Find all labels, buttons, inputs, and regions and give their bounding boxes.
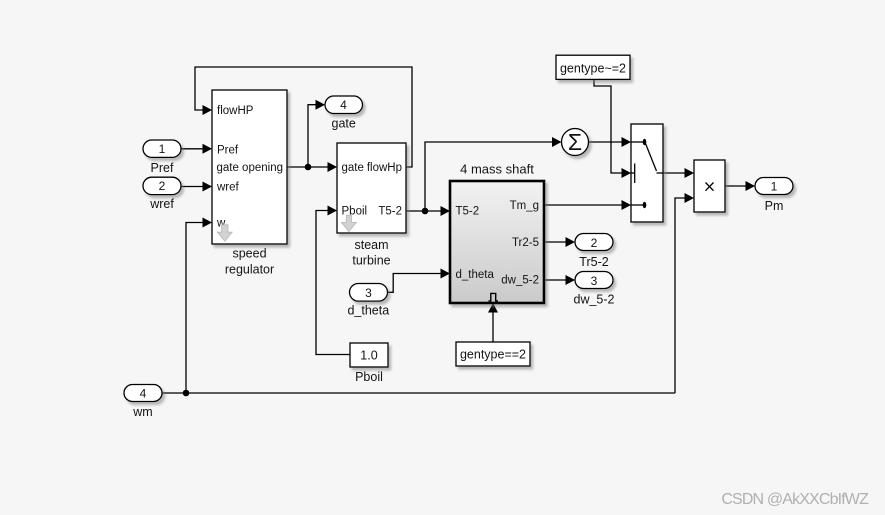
svg-text:d_theta: d_theta xyxy=(347,303,389,317)
svg-text:Pm: Pm xyxy=(765,199,784,213)
subsystem speed regulator xyxy=(212,90,287,244)
svg-text:2: 2 xyxy=(591,236,598,250)
svg-text:wref: wref xyxy=(216,182,240,194)
outport 4 gate xyxy=(325,96,363,130)
svg-text:turbine: turbine xyxy=(352,254,390,268)
svg-text:2: 2 xyxy=(159,179,166,193)
subsystem 4 mass shaft xyxy=(450,162,544,304)
wire Pboil constant to steam turbine Pboil xyxy=(316,206,350,355)
svg-text:1.0: 1.0 xyxy=(360,349,377,363)
wire branch T5-2 up to sum xyxy=(425,137,562,211)
svg-text:steam: steam xyxy=(354,238,388,252)
wire flowHp feedback (steam turbine flowHp to speed regulator flowHP) xyxy=(195,67,412,167)
wire gentype==2 trigger up into 4 mass shaft xyxy=(488,303,498,342)
svg-text:4: 4 xyxy=(140,387,147,401)
inport 2 wref xyxy=(143,177,181,211)
wire wref In2 to speed regulator xyxy=(181,182,212,192)
svg-text:Pboil: Pboil xyxy=(342,206,368,218)
svg-text:Tr2-5: Tr2-5 xyxy=(512,237,539,249)
inport 3 d_theta xyxy=(347,284,389,318)
constant gentype==2 xyxy=(456,342,530,366)
junction T5-2 xyxy=(422,208,429,215)
trigger icon on 4 mass shaft xyxy=(489,293,498,301)
svg-text:wm: wm xyxy=(132,405,152,419)
svg-text:CSDN @AkXXCbIfWZ: CSDN @AkXXCbIfWZ xyxy=(721,491,869,508)
outport 1 Pm xyxy=(755,178,793,214)
sum block xyxy=(562,129,589,156)
outport 2 Tr5-2 xyxy=(575,234,613,270)
wire sum to switch in1 xyxy=(589,137,632,147)
svg-text:dw_5-2: dw_5-2 xyxy=(501,275,539,287)
svg-text:gentype==2: gentype==2 xyxy=(460,348,526,362)
svg-text:gentype~=2: gentype~=2 xyxy=(560,62,626,76)
svg-text:dw_5-2: dw_5-2 xyxy=(574,293,615,307)
svg-text:flowHp: flowHp xyxy=(367,162,402,174)
svg-text:Pref: Pref xyxy=(217,145,239,157)
wire Tm_g to switch in3 xyxy=(544,200,631,210)
junction wm branch xyxy=(183,390,190,397)
wire T5-2 steam turbine to 4 mass shaft xyxy=(406,206,450,216)
svg-text:Tr5-2: Tr5-2 xyxy=(579,255,608,269)
constant gentype~=2 xyxy=(556,55,630,79)
wire dw_5-2 to Out3 xyxy=(544,275,575,285)
svg-text:T5-2: T5-2 xyxy=(378,206,402,218)
svg-text:wref: wref xyxy=(149,197,174,211)
label steam turbine xyxy=(352,238,390,267)
svg-text:3: 3 xyxy=(591,274,598,288)
svg-text:Tm_g: Tm_g xyxy=(510,200,539,212)
wire product to Out1 Pm xyxy=(725,181,755,191)
junction gate opening xyxy=(305,164,312,171)
svg-text:gate opening: gate opening xyxy=(216,162,283,174)
wire d_theta In3 to 4 mass shaft xyxy=(388,269,451,293)
svg-text:speed: speed xyxy=(232,247,266,261)
svg-text:T5-2: T5-2 xyxy=(456,206,480,218)
svg-text:1: 1 xyxy=(159,142,166,156)
wire wm branch up to w port of speed regulator xyxy=(186,218,212,394)
wire Tr2-5 to Out2 xyxy=(544,237,575,247)
inport 1 Pref xyxy=(143,140,181,175)
gray mask arrow steam turbine xyxy=(341,215,356,231)
svg-text:1: 1 xyxy=(771,180,778,194)
svg-text:Σ: Σ xyxy=(568,129,582,155)
svg-text:3: 3 xyxy=(365,286,372,300)
label speed regulator xyxy=(225,247,274,277)
outport 3 dw_5-2 xyxy=(574,272,615,307)
svg-text:gate: gate xyxy=(342,162,364,174)
inport 4 wm xyxy=(124,385,162,420)
wire branch gate opening up to Out4 gate xyxy=(308,100,325,167)
svg-text:4: 4 xyxy=(340,98,347,112)
svg-text:regulator: regulator xyxy=(225,263,274,277)
gray mask arrow speed regulator xyxy=(217,225,232,242)
wire wm up to product in2 xyxy=(675,193,694,393)
svg-text:4 mass shaft: 4 mass shaft xyxy=(460,162,534,177)
wire gentype~=2 to switch in2 xyxy=(594,79,631,178)
svg-text:d_theta: d_theta xyxy=(456,269,495,281)
subsystem steam turbine xyxy=(337,143,406,233)
wire wm In4 main run xyxy=(162,392,675,394)
wire switch out to product xyxy=(663,168,694,178)
svg-text:flowHP: flowHP xyxy=(217,105,254,117)
product block xyxy=(694,160,725,212)
switch block xyxy=(631,124,663,222)
svg-text:Pboil: Pboil xyxy=(355,370,383,384)
wire Pref In1 to speed regulator xyxy=(181,144,212,154)
svg-text:Pref: Pref xyxy=(151,161,174,175)
wire gate opening to steam turbine gate xyxy=(287,162,337,172)
constant 1.0 Pboil xyxy=(350,343,388,384)
svg-text:gate: gate xyxy=(332,116,356,130)
watermark xyxy=(721,491,869,508)
